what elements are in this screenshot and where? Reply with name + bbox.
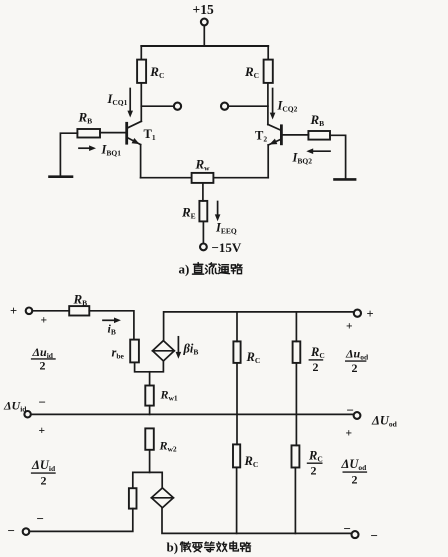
wire RB2 to ground 2: [330, 135, 346, 178]
svg-text:T2: T2: [255, 129, 267, 144]
terminal middle-left: [24, 411, 30, 417]
svg-text:−: −: [37, 511, 44, 526]
resistor RC3 upper: [233, 341, 240, 363]
svg-text:−: −: [344, 521, 351, 536]
terminal output 1: [174, 103, 181, 110]
svg-text:Rw2: Rw2: [159, 439, 177, 454]
svg-text:+15: +15: [193, 2, 214, 17]
wire RC2 to collector node T2: [267, 83, 269, 125]
svg-text:RC: RC: [149, 64, 164, 80]
svg-text:−: −: [8, 523, 15, 538]
wire diamond 1 to top rail b: [164, 312, 354, 341]
wire RW tap to RE: [202, 183, 204, 201]
wire terminal to RB3: [32, 310, 69, 312]
svg-text:ΔUod: ΔUod: [341, 457, 368, 472]
current arrow IBQ2: [306, 148, 330, 154]
svg-text:Rw1: Rw1: [160, 388, 178, 403]
svg-text:RB: RB: [310, 112, 325, 128]
svg-text:2: 2: [40, 359, 46, 373]
wire base T1: [100, 132, 125, 134]
wire diamond 2 to bottom-right rail: [162, 508, 352, 534]
wire middle rail: [31, 413, 354, 415]
resistor RC5 upper half: [293, 341, 301, 363]
terminal +15: [201, 19, 208, 26]
wire top rail: [141, 45, 268, 47]
svg-text:RE: RE: [181, 205, 196, 221]
terminal bottom-right: [352, 531, 359, 538]
resistor RW1: [145, 386, 154, 406]
current arrow ICQ2: [270, 89, 276, 120]
svg-text:+: +: [10, 304, 17, 318]
wire column RC lower: [236, 467, 238, 533]
wire junction to RW1: [149, 372, 151, 386]
svg-text:+: +: [367, 307, 374, 321]
wire RB3 to rbe: [89, 311, 134, 340]
wire +15 to top rail: [203, 26, 205, 46]
label fraction dUid/2 bottom-left: [31, 458, 56, 488]
svg-text:b): b): [167, 540, 179, 555]
svg-text:Δuod: Δuod: [345, 347, 369, 362]
wire lower junction split: [133, 472, 162, 488]
wire RW1 to middle rail: [149, 406, 151, 415]
controlled source diamond 1: [153, 341, 175, 361]
wire rail to RC1: [140, 46, 142, 60]
resistor rbe: [130, 340, 139, 363]
wire RB1 to ground 1: [60, 133, 77, 175]
wire rail to RC2: [267, 46, 269, 60]
svg-text:+: +: [39, 425, 46, 437]
wire rbe2 to bottom-left rail: [29, 509, 133, 532]
svg-text:RC: RC: [308, 449, 323, 464]
wire collector node to output terminal 1: [141, 105, 174, 107]
resistor RE: [199, 201, 207, 222]
current arrow IEEQ: [215, 202, 221, 222]
wire column RC2 middle: [295, 363, 297, 446]
label fraction RC/2 lower: [308, 449, 323, 478]
wire emitter T1 down: [140, 145, 142, 178]
wire emitter T2 down: [267, 145, 269, 178]
svg-text:ΔUid: ΔUid: [3, 399, 27, 414]
resistor RC4 lower: [233, 444, 240, 467]
wire emitter rail left: [141, 177, 192, 179]
current arrow beta iB: [176, 337, 182, 359]
resistor RB3: [69, 306, 89, 315]
svg-text:IBQ1: IBQ1: [101, 143, 122, 158]
svg-text:+: +: [346, 428, 353, 440]
current arrow IBQ1: [79, 145, 96, 151]
svg-text:2: 2: [352, 361, 358, 375]
wire base T2: [283, 134, 309, 136]
svg-text:RB: RB: [73, 292, 88, 308]
label fraction duod/2 top-right: [345, 347, 369, 376]
terminal input top-left: [26, 308, 33, 315]
svg-text:RC: RC: [246, 350, 261, 365]
svg-text:Rw: Rw: [195, 157, 211, 173]
wire RE to -15V terminal: [202, 221, 204, 243]
transistor Q T2: [268, 124, 282, 147]
terminal -15V: [200, 244, 207, 251]
svg-text:+: +: [346, 321, 353, 333]
label fraction RC/2 upper: [309, 345, 324, 374]
resistor RW2: [145, 428, 154, 449]
wire collector node to output terminal 2: [228, 105, 268, 107]
svg-text:ΔUod: ΔUod: [371, 414, 398, 429]
svg-text:−: −: [347, 403, 354, 418]
svg-text:−15V: −15V: [212, 240, 242, 255]
wire column RC2 upper: [295, 312, 297, 342]
svg-text:βiB: βiB: [183, 342, 199, 357]
caption b) small-signal equivalent circuit: [167, 540, 251, 555]
current arrow ICQ1: [127, 89, 133, 118]
wire column RC upper: [236, 312, 238, 342]
svg-text:iB: iB: [108, 322, 116, 337]
svg-text:ΔUid: ΔUid: [31, 458, 56, 473]
wire rbe bottom junction: [135, 361, 164, 372]
resistor RB1: [77, 129, 100, 138]
svg-text:+: +: [41, 315, 48, 327]
svg-text:2: 2: [41, 474, 47, 488]
resistor rbe2 unlabeled: [129, 488, 137, 508]
wire column RC middle: [236, 363, 238, 445]
svg-text:RC: RC: [244, 64, 259, 80]
svg-text:2: 2: [352, 473, 358, 487]
terminal output top-right: [354, 310, 361, 317]
current arrow iB: [103, 318, 121, 324]
ground 2: [335, 178, 356, 181]
svg-text:rbe: rbe: [112, 346, 125, 361]
svg-text:ICQ2: ICQ2: [277, 99, 298, 114]
terminal middle-right: [354, 412, 361, 419]
terminal output 2: [221, 103, 228, 110]
wire RW2 to lower junction: [149, 450, 151, 473]
svg-text:a): a): [179, 262, 190, 277]
svg-text:−: −: [371, 528, 378, 543]
svg-text:IEEQ: IEEQ: [215, 221, 237, 236]
transistor Q T1: [127, 121, 142, 146]
label fraction dUod/2 bottom-right: [341, 457, 368, 487]
resistor RC1: [137, 60, 146, 83]
controlled source diamond 2: [151, 488, 173, 508]
svg-text:RC: RC: [310, 345, 325, 360]
wire emitter rail right: [213, 177, 268, 179]
svg-text:RB: RB: [78, 110, 93, 126]
terminal bottom-left: [23, 528, 30, 535]
svg-text:RC: RC: [244, 454, 259, 469]
svg-text:IBQ2: IBQ2: [292, 151, 313, 166]
resistor RB2: [308, 131, 330, 140]
svg-text:ICQ1: ICQ1: [107, 92, 128, 107]
svg-text:T1: T1: [144, 127, 156, 142]
wire RC1 to collector node T1: [140, 83, 142, 121]
label fraction duid/2 top-left: [32, 345, 56, 373]
resistor RW: [192, 173, 214, 183]
wire column RC2 lower: [294, 468, 296, 534]
svg-text:2: 2: [313, 360, 319, 374]
svg-text:−: −: [39, 395, 46, 410]
resistor RC6 lower half: [292, 445, 300, 467]
caption a) DC path: [179, 262, 243, 277]
ground 1: [50, 175, 73, 178]
resistor RC2: [264, 60, 273, 83]
svg-text:2: 2: [311, 464, 317, 478]
